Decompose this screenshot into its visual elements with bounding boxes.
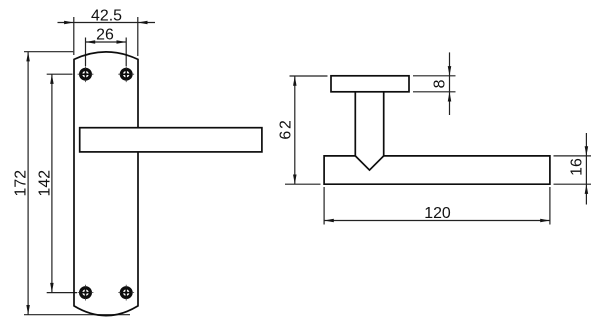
svg-text:142: 142 — [36, 170, 53, 197]
svg-text:16: 16 — [569, 158, 586, 176]
svg-text:8: 8 — [431, 79, 448, 88]
svg-text:120: 120 — [424, 205, 451, 222]
svg-text:62: 62 — [278, 118, 295, 139]
svg-text:172: 172 — [12, 170, 29, 197]
svg-text:42.5: 42.5 — [91, 7, 122, 24]
svg-text:26: 26 — [96, 27, 114, 44]
